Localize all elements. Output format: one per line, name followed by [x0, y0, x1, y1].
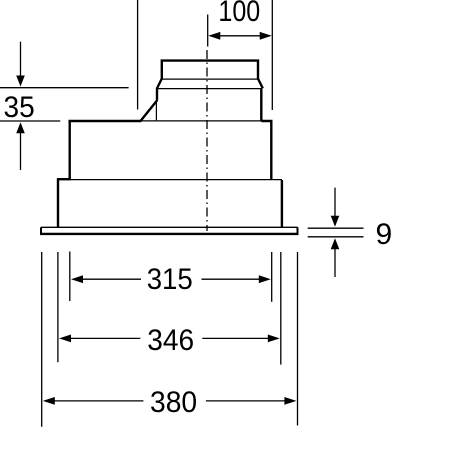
dimension 315: right arrowhead [259, 275, 271, 283]
duct collar left base hidden edge (thin) [155, 100, 157, 120]
extension line 380 right (flange right) [297, 252, 299, 426]
dimension 100: right extension line [271, 0, 273, 110]
dimension 35: lower arrowhead (up) [16, 122, 25, 133]
dimension 315: dimension line [81, 278, 261, 280]
extension line 346 left (lower body left) [57, 252, 59, 362]
dimension 315: left arrowhead [71, 275, 83, 283]
svg-text:35: 35 [4, 91, 35, 124]
flange bottom edge (thick) [40, 233, 299, 235]
hood mid step seam across (thin) [71, 179, 282, 181]
dimension 380: left arrowhead [43, 397, 55, 405]
dimension 9: lower arrowhead (up) [331, 238, 340, 249]
dimension 35: lower extension line [0, 120, 60, 122]
hood top seam under collar (thin) [141, 120, 262, 122]
dimension 100: left arrowhead [208, 32, 220, 40]
svg-text:380: 380 [150, 386, 197, 419]
dimension 380: dimension line [53, 400, 287, 402]
duct collar outline (thick) [157, 61, 263, 121]
dimension 346: right arrowhead [268, 335, 280, 343]
extension line, hood left edge (from cropped top dimension) [137, 0, 139, 110]
dimension 100: left tick extension [207, 15, 209, 47]
flange left end [40, 227, 42, 234]
dimension 9: upper arrowhead (down) [331, 216, 340, 227]
dimension 9: lower arrow line [334, 248, 336, 277]
dimension 35: lower arrow line [20, 132, 22, 170]
dimension 35: upper arrowhead (down) [16, 76, 25, 87]
dimension 346: left arrowhead [59, 335, 71, 343]
extension line 380 left (flange left) [41, 252, 43, 427]
dimension 9: lower extension line [308, 236, 364, 238]
flange right end [297, 227, 299, 234]
flange top edge (thin) [41, 226, 298, 228]
hood lower body right edge (thick) [281, 180, 283, 227]
dimension 100: right arrowhead [260, 32, 272, 40]
svg-text:9: 9 [376, 218, 393, 251]
hood lower body left edge (thick) [57, 179, 59, 227]
hood upper body outline (thick) [70, 100, 272, 180]
svg-text:100: 100 [218, 0, 260, 28]
duct collar seam, flare bottom (thin) [157, 88, 261, 90]
dimension 346: dimension line [69, 337, 270, 339]
svg-text:346: 346 [147, 324, 194, 357]
duct collar seam, flare top (thin) [162, 78, 258, 80]
extension line 346 right (lower body right) [280, 252, 282, 365]
hood mid step seam left (thick) [57, 178, 71, 180]
dimension 9: upper extension line [308, 227, 364, 229]
centre line (dash-dot) of duct [206, 50, 208, 231]
extension line 315 left (upper body left) [69, 252, 71, 302]
svg-text:315: 315 [147, 263, 193, 296]
extension line 315 right (upper body right) [271, 252, 273, 302]
dimension 35: upper extension line [0, 87, 129, 89]
dimension 380: right arrowhead [284, 397, 296, 405]
dimension 35: upper arrow line [20, 42, 22, 76]
dimension 100: dimension line [210, 35, 270, 37]
dimension 9: upper arrow line [334, 188, 336, 216]
